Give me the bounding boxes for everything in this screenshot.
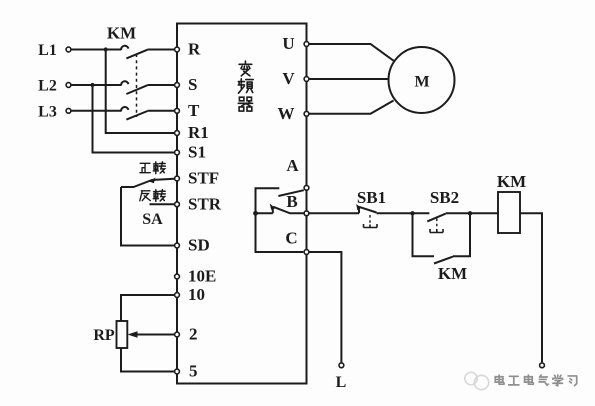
relay contact bracket (A-B-C common)	[256, 188, 304, 252]
terminal L3	[66, 108, 71, 113]
wire U to motor	[309, 44, 394, 61]
svg-text:10: 10	[188, 285, 205, 304]
contactor KM pole 2 blade	[126, 85, 147, 94]
svg-text:U: U	[282, 34, 294, 53]
SA blade arrow tip	[149, 178, 156, 183]
relay blade A	[278, 190, 303, 196]
pushbutton SB1 blade	[359, 207, 377, 213]
wire KM pole 3 to T	[148, 110, 175, 112]
svg-text:SD: SD	[188, 236, 210, 255]
motor M	[389, 47, 455, 113]
terminal T	[175, 108, 180, 113]
wire RP bottom to terminal 5	[121, 348, 174, 372]
svg-text:10E: 10E	[188, 267, 216, 286]
terminal STF	[175, 176, 180, 181]
svg-text:2: 2	[189, 325, 198, 344]
junction SB1/SB2	[410, 211, 414, 215]
svg-text:STF: STF	[188, 169, 219, 188]
label 变频器 (vertical)	[238, 61, 253, 111]
SB1 actuator dashed	[369, 215, 371, 224]
wire L1 junction to R1	[106, 50, 174, 134]
wire V to motor	[309, 78, 389, 80]
junction SB2/coil	[468, 211, 472, 215]
wire junction 2 to KM coil	[470, 212, 498, 214]
svg-text:B: B	[286, 192, 297, 211]
SB1 push cap	[364, 224, 378, 228]
svg-text:V: V	[282, 69, 295, 88]
wire junction to SB2	[413, 212, 430, 214]
wire KM pole 1 to R	[148, 49, 175, 51]
terminal R	[175, 47, 180, 52]
pushbutton SB1 blade barb	[356, 204, 361, 210]
junction at relay common	[253, 211, 258, 216]
terminal 10E	[175, 274, 180, 279]
terminal supply bottom right	[540, 363, 545, 368]
wire L2 junction to S1	[93, 85, 175, 153]
contactor KM pole 3 fixed hook	[121, 107, 128, 111]
svg-text:S: S	[188, 75, 197, 94]
wire SB1 to junction	[377, 212, 413, 214]
KM mechanical coupling dashed line	[136, 54, 138, 117]
terminal L	[339, 363, 344, 368]
svg-text:L1: L1	[38, 42, 57, 59]
inverter box 变频器	[177, 24, 307, 384]
svg-text:KM: KM	[438, 264, 467, 283]
watermark logo	[465, 372, 489, 389]
wire L1 to KM	[72, 49, 122, 51]
svg-text:L2: L2	[38, 78, 57, 95]
svg-text:T: T	[188, 101, 200, 120]
terminal 5	[175, 369, 180, 374]
svg-text:KM: KM	[107, 24, 136, 43]
svg-text:RP: RP	[93, 327, 115, 344]
svg-text:KM: KM	[497, 172, 526, 191]
contactor coil KM	[498, 192, 520, 233]
contactor KM pole 1 blade	[126, 50, 147, 59]
wire terminal 10 to RP top	[121, 295, 174, 321]
wire KM coil to supply terminal	[520, 213, 542, 362]
terminal W	[304, 111, 309, 116]
svg-text:S1: S1	[188, 143, 206, 162]
switch SA blade to STF	[121, 179, 174, 187]
wire stub STR	[150, 203, 175, 205]
wire C to L terminal	[309, 252, 342, 363]
junction L1	[104, 47, 108, 51]
terminal S1	[175, 150, 180, 155]
potentiometer RP body	[117, 321, 128, 348]
terminal L1	[66, 47, 71, 52]
contact KM aux blade	[434, 257, 453, 264]
junction L2	[90, 83, 94, 87]
contactor KM pole 3 blade	[126, 111, 147, 120]
svg-text:5: 5	[189, 362, 198, 381]
terminal 10	[175, 293, 180, 298]
svg-text:A: A	[286, 156, 299, 175]
relay blade B	[273, 207, 304, 214]
wire B to SB1	[309, 212, 359, 214]
label 反转 (reverse)	[140, 190, 166, 202]
svg-text:M: M	[414, 74, 429, 91]
wire bracket stub at B	[256, 212, 273, 214]
SB2 actuator dashed	[436, 219, 438, 230]
terminal V	[304, 77, 309, 82]
terminal 2	[175, 332, 180, 337]
terminal SD	[175, 243, 180, 248]
terminal STR	[175, 202, 180, 207]
terminal C	[304, 250, 309, 255]
RP wiper arrowhead	[128, 331, 138, 338]
SB2 push cap	[430, 229, 443, 233]
svg-text:W: W	[278, 104, 295, 123]
wire L2 to KM	[72, 84, 122, 86]
watermark 电工电气学习	[495, 375, 576, 386]
svg-text:SB1: SB1	[357, 188, 386, 207]
svg-text:SA: SA	[142, 211, 163, 228]
pushbutton SB1 (NC) tick	[358, 207, 360, 214]
switch SA bracket to SD	[121, 187, 174, 246]
relay contact B fixed tick	[272, 206, 274, 213]
wire RP wiper to terminal 2	[136, 334, 174, 336]
svg-text:L: L	[336, 374, 347, 391]
wire KM pole 2 to S	[148, 84, 175, 86]
terminal U	[304, 42, 309, 47]
label 正转 (forward)	[140, 162, 165, 174]
svg-text:L3: L3	[38, 103, 57, 120]
wire L3 to KM	[72, 110, 122, 112]
wire SB2 to junction 2	[446, 212, 470, 214]
relay blade B barb	[270, 204, 276, 210]
terminal A	[304, 185, 309, 190]
svg-text:SB2: SB2	[430, 188, 459, 207]
terminal L2	[66, 83, 71, 88]
wire KM aux branch right	[453, 213, 470, 256]
svg-text:C: C	[285, 229, 297, 248]
wire KM aux branch left	[413, 213, 435, 256]
terminal S	[175, 83, 180, 88]
svg-text:R: R	[188, 40, 201, 59]
terminal B	[304, 211, 309, 216]
svg-text:STR: STR	[188, 194, 222, 213]
contactor KM pole 2 fixed hook	[121, 81, 128, 85]
contactor KM pole 1 fixed hook	[121, 46, 128, 50]
terminal R1	[175, 131, 180, 136]
pushbutton SB2 blade	[427, 214, 446, 222]
wire W to motor	[309, 101, 394, 114]
svg-text:R1: R1	[188, 123, 209, 142]
